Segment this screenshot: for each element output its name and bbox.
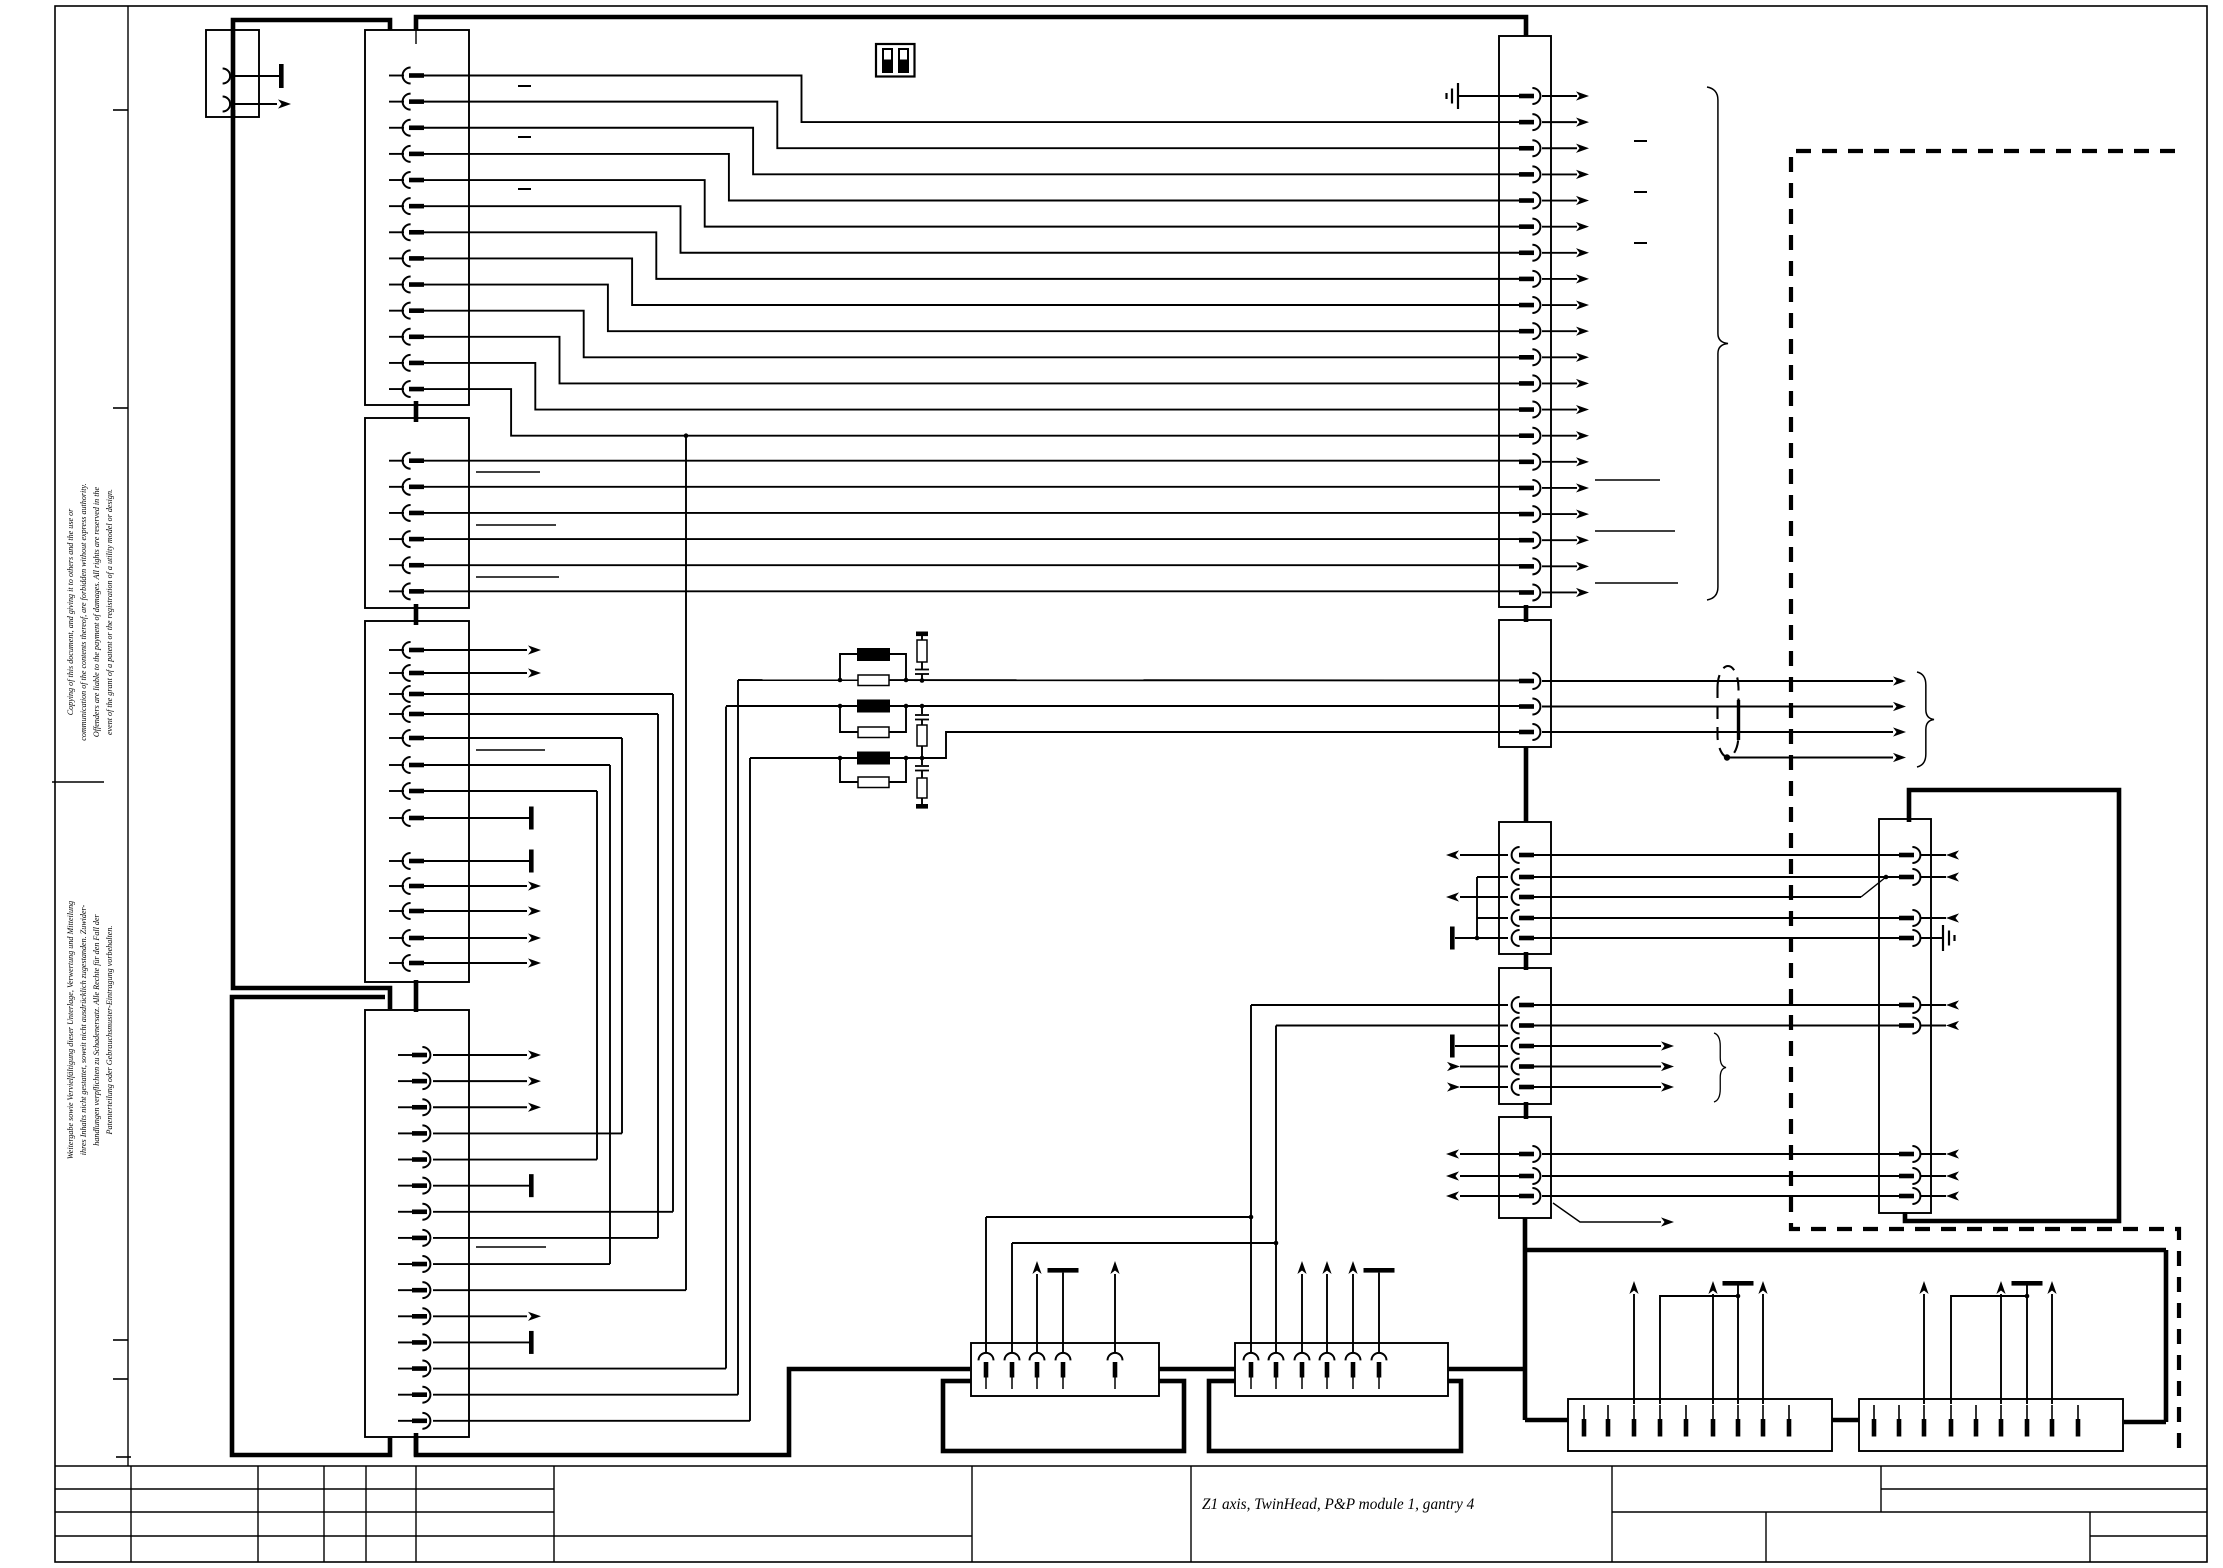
svg-text:Copying of this document, and: Copying of this document, and giving it … xyxy=(66,508,75,715)
svg-text:event of the grant of a patent: event of the grant of a patent or the re… xyxy=(105,489,114,735)
svg-text:ihres Inhalts nicht gestattet,: ihres Inhalts nicht gestattet, soweit ni… xyxy=(79,904,88,1155)
svg-text:Z1 axis, TwinHead, P&P module: Z1 axis, TwinHead, P&P module 1, gantry … xyxy=(1202,1496,1475,1513)
svg-text:Patenterteilung oder Gebrauchs: Patenterteilung oder Gebrauchsmuster-Ein… xyxy=(105,926,114,1136)
svg-text:communication of the contents: communication of the contents thereof, a… xyxy=(79,483,88,740)
svg-text:Weitergabe sowie Vervielfältig: Weitergabe sowie Vervielfältigung dieser… xyxy=(66,901,75,1159)
svg-text:Offenders are liable to the pa: Offenders are liable to the payment of d… xyxy=(92,486,101,737)
svg-text:handlungen verpflichten zu Sch: handlungen verpflichten zu Schadenersatz… xyxy=(92,913,101,1145)
